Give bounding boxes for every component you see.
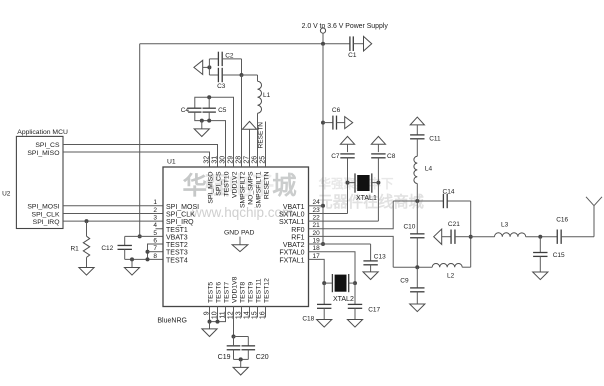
label L3 bbox=[501, 222, 509, 229]
svg-text:SPI_MOSI: SPI_MOSI bbox=[166, 204, 199, 211]
svg-text:L1: L1 bbox=[263, 92, 271, 99]
pin label VBAT2 (U1) bbox=[283, 242, 305, 249]
svg-text:1: 1 bbox=[153, 199, 157, 206]
node gnd tap rail bbox=[130, 257, 134, 261]
svg-text:VBAT3: VBAT3 bbox=[166, 234, 188, 241]
crystal XTAL1 bbox=[348, 173, 379, 192]
svg-text:NO_SMPS: NO_SMPS bbox=[248, 171, 255, 205]
svg-text:TEST10: TEST10 bbox=[224, 171, 231, 196]
pin 5 number bbox=[153, 230, 157, 237]
pin 32 number bbox=[204, 156, 211, 164]
pin 13 number bbox=[236, 311, 243, 319]
pin label TEST1 (U1) bbox=[166, 227, 188, 234]
pin label SPI_MISO (MCU) bbox=[27, 150, 59, 157]
pin label SPI_IRQ (U1) bbox=[166, 219, 194, 226]
capacitor C2 bbox=[209, 52, 241, 66]
svg-text:VBAT2: VBAT2 bbox=[283, 242, 305, 249]
pin 17 number bbox=[313, 253, 321, 260]
svg-text:17: 17 bbox=[313, 253, 321, 260]
svg-text:SPI_MOSI: SPI_MOSI bbox=[27, 204, 59, 211]
pin 1 number bbox=[153, 199, 157, 206]
svg-text:24: 24 bbox=[313, 199, 321, 206]
node C2C3 left bbox=[207, 65, 211, 69]
pin label TEST5 (U1) bbox=[208, 282, 215, 303]
wire C4C5 bottom rail bbox=[195, 112, 226, 167]
label R1 bbox=[70, 246, 79, 253]
pin 23 number bbox=[313, 207, 321, 214]
power supply terminal bbox=[320, 28, 325, 44]
svg-text:23: 23 bbox=[313, 207, 321, 214]
pin 6 number bbox=[153, 237, 157, 244]
wire SPI_MISO bbox=[63, 152, 210, 167]
svg-text:XTAL2: XTAL2 bbox=[333, 296, 354, 303]
label C8 bbox=[387, 153, 396, 160]
svg-text:C17: C17 bbox=[368, 306, 380, 313]
node bracket to rail bbox=[146, 257, 150, 261]
wire pin28 stub bbox=[241, 75, 243, 167]
svg-text:C6: C6 bbox=[332, 107, 341, 114]
node gnd tap C4C5 bbox=[200, 119, 204, 123]
power arrow above C8 bbox=[371, 136, 385, 144]
wire balun right column bbox=[470, 201, 472, 267]
svg-text:SPI_CS: SPI_CS bbox=[216, 171, 223, 196]
resistor R1 bbox=[83, 221, 89, 267]
capacitor C9 bbox=[410, 267, 424, 304]
wire pin 14 stub bbox=[249, 307, 251, 318]
pin 11 number bbox=[220, 311, 227, 318]
pin label SPI_CLK (MCU) bbox=[32, 211, 60, 218]
capacitor C20 bbox=[242, 346, 256, 360]
wire balun top rail bbox=[393, 200, 471, 202]
pin 26 number bbox=[252, 156, 259, 164]
wire L3 to C16 bbox=[526, 236, 558, 238]
crystal XTAL2 bbox=[324, 274, 355, 292]
svg-text:21: 21 bbox=[313, 222, 321, 229]
pin 29 number bbox=[228, 156, 235, 164]
capacitor C11 bbox=[410, 125, 424, 156]
label C7 bbox=[331, 153, 340, 160]
svg-text:C1: C1 bbox=[348, 52, 357, 59]
svg-text:BlueNRG: BlueNRG bbox=[157, 318, 187, 325]
wire VDD1V8 column bbox=[233, 307, 235, 337]
pin 18 number bbox=[313, 245, 321, 252]
pin 30 number bbox=[220, 156, 227, 164]
pin label TEST9 (U1) bbox=[248, 282, 255, 303]
wire balun bottom rail bbox=[393, 266, 471, 268]
power arrow NO_SMPS bbox=[242, 121, 256, 167]
pin label VBAT1 (U1) bbox=[283, 204, 305, 211]
node VBAT1 tap bbox=[321, 204, 325, 208]
pin 22 number bbox=[313, 215, 321, 222]
pin 25 number bbox=[260, 156, 267, 164]
capacitor C14 bbox=[443, 194, 447, 208]
label C4 bbox=[181, 107, 190, 114]
pin label SXTAL1 (U1) bbox=[279, 219, 305, 226]
pin 4 number bbox=[153, 222, 157, 229]
power arrow C2C3 bbox=[194, 60, 203, 74]
svg-text:TEST9: TEST9 bbox=[248, 282, 255, 303]
svg-text:C4: C4 bbox=[181, 107, 190, 114]
svg-text:SPI_IRQ: SPI_IRQ bbox=[166, 219, 194, 226]
ground below C9 bbox=[410, 304, 425, 312]
svg-text:C8: C8 bbox=[387, 153, 396, 160]
label XTAL1 bbox=[356, 195, 377, 202]
node pin9 gnd bbox=[208, 320, 212, 324]
svg-text:TEST6: TEST6 bbox=[216, 282, 223, 303]
svg-text:FXTAL0: FXTAL0 bbox=[279, 250, 304, 257]
label L2 bbox=[447, 272, 455, 279]
ground below C18 bbox=[317, 320, 332, 328]
label C12 bbox=[101, 245, 113, 252]
svg-text:L4: L4 bbox=[425, 166, 433, 173]
svg-text:Application MCU: Application MCU bbox=[17, 129, 68, 136]
net label RESETN bbox=[258, 122, 265, 149]
node C6 tap bbox=[321, 121, 325, 125]
svg-text:SMPSFILT1: SMPSFILT1 bbox=[256, 171, 263, 208]
wire VBAT2 to C13 bbox=[309, 243, 371, 245]
ground below pin9 bbox=[202, 322, 217, 337]
pin label SPI_CS (U1) bbox=[216, 171, 223, 196]
pin label FXTAL0 (U1) bbox=[279, 250, 304, 257]
pin label FXTAL1 (U1) bbox=[279, 257, 304, 264]
pin 24 number bbox=[313, 199, 321, 206]
pin label TEST12 (U1) bbox=[264, 278, 271, 303]
node antenna branch bbox=[469, 235, 473, 239]
label C19 bbox=[218, 354, 231, 361]
wire TEST2 bracket bbox=[148, 244, 164, 259]
pin 3 number bbox=[153, 215, 157, 222]
svg-text:城: 城 bbox=[272, 172, 297, 200]
pin label TEST4 (U1) bbox=[166, 257, 188, 264]
svg-text:VBAT1: VBAT1 bbox=[283, 204, 305, 211]
ground below C4C5 bbox=[194, 121, 209, 137]
pin 7 number bbox=[153, 245, 157, 252]
label U2 bbox=[2, 190, 11, 197]
node XTAL2 right bbox=[353, 281, 357, 285]
svg-text:C15: C15 bbox=[553, 252, 565, 259]
svg-text:U1: U1 bbox=[167, 159, 176, 166]
svg-text:L3: L3 bbox=[501, 222, 509, 229]
wire C2C3 left rail bbox=[208, 59, 210, 75]
pin 27 number bbox=[244, 156, 251, 164]
svg-text:TEST2: TEST2 bbox=[166, 242, 188, 249]
wire SPI_CS bbox=[63, 145, 218, 168]
pin 14 number bbox=[244, 311, 251, 319]
label C1 bbox=[348, 52, 357, 59]
capacitor C15 bbox=[533, 237, 547, 272]
svg-text:C12: C12 bbox=[101, 245, 113, 252]
pin label TEST7 (U1) bbox=[224, 282, 231, 303]
pin label SPI_IRQ (MCU) bbox=[33, 219, 60, 226]
node SMPSFILT2 bbox=[240, 73, 244, 77]
label C15 bbox=[553, 252, 565, 259]
wire SXTAL1 bbox=[309, 220, 379, 222]
wire node to L1 bbox=[242, 74, 258, 76]
inductor L4 bbox=[414, 156, 417, 201]
node power junction bbox=[321, 42, 325, 46]
svg-text:8: 8 bbox=[153, 253, 157, 260]
pin label TEST10 (U1) bbox=[224, 171, 231, 196]
pin 21 number bbox=[313, 222, 321, 229]
wire top rail bbox=[140, 43, 350, 45]
label C3 bbox=[217, 83, 226, 90]
svg-text:22: 22 bbox=[313, 215, 321, 222]
svg-text:C5: C5 bbox=[218, 107, 227, 114]
pin 28 number bbox=[236, 156, 243, 164]
pin 20 number bbox=[313, 230, 321, 237]
capacitor C4 bbox=[188, 108, 201, 112]
pin label SMPSFILT2 (U1) bbox=[240, 171, 247, 208]
pin 31 number bbox=[212, 156, 219, 164]
pin label VDD1V8 (U1) bbox=[232, 276, 239, 303]
ground below C12 rail bbox=[124, 259, 139, 275]
svg-text:C20: C20 bbox=[256, 354, 269, 361]
label L4 bbox=[425, 166, 433, 173]
pin 19 number bbox=[313, 237, 321, 244]
wire TEST3 stub bbox=[148, 251, 164, 253]
power arrow above C11 bbox=[410, 117, 424, 125]
wire FXTAL0 bbox=[309, 252, 356, 283]
svg-text:TEST8: TEST8 bbox=[240, 282, 247, 303]
wire RF0 bbox=[309, 201, 394, 229]
svg-text:31: 31 bbox=[212, 156, 219, 164]
wire C2 right drop bbox=[241, 59, 243, 75]
svg-text:C16: C16 bbox=[556, 216, 568, 223]
svg-text:C3: C3 bbox=[217, 83, 226, 90]
label C5 bbox=[218, 107, 227, 114]
wire supply column left bbox=[139, 44, 141, 237]
svg-text:6: 6 bbox=[153, 237, 157, 244]
wire C19 top plate stub bbox=[233, 337, 235, 346]
pin label TEST8 (U1) bbox=[240, 282, 247, 303]
svg-text:18: 18 bbox=[313, 245, 321, 252]
svg-text:C10: C10 bbox=[403, 224, 415, 231]
node R1 tap bbox=[85, 219, 89, 223]
label U1 bbox=[167, 159, 176, 166]
power arrow above C7 bbox=[340, 136, 354, 144]
pin label SPI_CS (MCU) bbox=[35, 142, 60, 149]
svg-text:SPI_CLK: SPI_CLK bbox=[166, 211, 195, 218]
svg-text:19: 19 bbox=[313, 237, 321, 244]
node pin10 gnd bbox=[216, 320, 220, 324]
capacitor C5 bbox=[203, 97, 216, 120]
capacitor C19 bbox=[227, 346, 241, 360]
capacitor C1 bbox=[350, 36, 364, 51]
antenna bbox=[586, 197, 602, 237]
svg-text:5: 5 bbox=[153, 230, 157, 237]
pin label SXTAL0 (U1) bbox=[279, 211, 305, 218]
svg-text:SXTAL0: SXTAL0 bbox=[279, 211, 305, 218]
wire SXTAL0 bbox=[309, 212, 348, 214]
power arrow after C6 bbox=[345, 117, 353, 129]
svg-text:RF1: RF1 bbox=[291, 234, 304, 241]
pin label VBAT3 (U1) bbox=[166, 234, 188, 241]
capacitor C13 bbox=[363, 244, 377, 272]
node C15 tap bbox=[538, 235, 542, 239]
node XTAL1 left bbox=[346, 181, 350, 185]
wire C19C20 top rail bbox=[234, 337, 249, 347]
svg-text:C18: C18 bbox=[302, 316, 314, 323]
IC U1 outline bbox=[163, 167, 309, 307]
svg-text:C7: C7 bbox=[331, 153, 340, 160]
wire SPI_MOSI bbox=[63, 205, 163, 207]
capacitor C8 bbox=[371, 144, 385, 221]
power supply label bbox=[302, 23, 389, 30]
node C19 top bbox=[232, 335, 236, 339]
pin 12 number bbox=[228, 311, 235, 319]
svg-text:20: 20 bbox=[313, 230, 321, 237]
wire TEST1 stub bbox=[156, 228, 164, 230]
pin label VDD1V2 (U1) bbox=[232, 171, 239, 198]
pin 10 number bbox=[212, 311, 219, 319]
wire SPI_IRQ bbox=[63, 220, 163, 222]
capacitor C10 bbox=[410, 201, 424, 267]
pin label RF0 (U1) bbox=[291, 227, 304, 234]
label C6 bbox=[332, 107, 341, 114]
power arrow after C1 bbox=[364, 36, 372, 51]
rf arrow C21 bbox=[434, 229, 442, 244]
wire SPI_CLK bbox=[63, 212, 163, 214]
svg-text:GND PAD: GND PAD bbox=[224, 230, 255, 237]
GND PAD symbol bbox=[224, 230, 255, 252]
node supply to VBAT3 bbox=[138, 234, 142, 238]
svg-text:C21: C21 bbox=[448, 221, 460, 228]
pin label SPI_MISO (U1) bbox=[208, 172, 215, 204]
wire C4C5 top rail bbox=[195, 97, 234, 167]
svg-text:SPI_CLK: SPI_CLK bbox=[32, 211, 60, 218]
svg-text:RESETN: RESETN bbox=[258, 122, 265, 149]
capacitor C3 bbox=[209, 68, 241, 82]
wire FXTAL1 bbox=[309, 259, 325, 283]
svg-text:TEST4: TEST4 bbox=[166, 257, 188, 264]
pin label SPI_MOSI (MCU) bbox=[27, 204, 59, 211]
svg-text:U2: U2 bbox=[2, 190, 11, 197]
label C2 bbox=[225, 52, 234, 59]
svg-text:华强聚集丰下: 华强聚集丰下 bbox=[319, 176, 395, 191]
svg-text:SMPSFILT2: SMPSFILT2 bbox=[240, 171, 247, 208]
wire supply column right bbox=[322, 44, 324, 244]
wire C19C20 bottom rail bbox=[234, 358, 249, 360]
capacitor C21 bbox=[442, 230, 471, 244]
node C19C20 gnd bbox=[239, 357, 243, 361]
inductor L3 bbox=[494, 233, 525, 237]
svg-text:C2: C2 bbox=[225, 52, 234, 59]
svg-text:华: 华 bbox=[183, 171, 208, 200]
pin 16 number bbox=[260, 311, 267, 319]
inductor L1 bbox=[258, 75, 262, 167]
capacitor C12 bbox=[118, 236, 132, 259]
capacitor C16 bbox=[557, 230, 561, 244]
label C10 bbox=[403, 224, 415, 231]
node C5 bottom bbox=[207, 119, 211, 123]
wire RF1 bbox=[309, 236, 394, 267]
svg-text:2: 2 bbox=[153, 207, 157, 214]
ground below C15 bbox=[533, 272, 548, 280]
pin 15 number bbox=[252, 311, 259, 319]
pin label TEST3 (U1) bbox=[166, 250, 188, 257]
svg-text:SPI_MISO: SPI_MISO bbox=[27, 150, 59, 157]
label C16 bbox=[556, 216, 568, 223]
ground below C17 bbox=[347, 320, 362, 328]
svg-text:4: 4 bbox=[153, 222, 157, 229]
svg-text:2.0 V to 3.6 V Power Supply: 2.0 V to 3.6 V Power Supply bbox=[302, 23, 389, 30]
node balun bottom bbox=[415, 265, 419, 269]
pin label TEST11 (U1) bbox=[256, 278, 263, 303]
wire pin 13 stub bbox=[241, 307, 243, 318]
svg-text:TEST3: TEST3 bbox=[166, 250, 188, 257]
pin label TEST6 (U1) bbox=[216, 282, 223, 303]
node C5 top bbox=[207, 95, 211, 99]
wire VBAT1 bbox=[309, 205, 324, 207]
svg-text:TEST5: TEST5 bbox=[208, 282, 215, 303]
svg-text:C14: C14 bbox=[443, 188, 455, 195]
capacitor C7 bbox=[340, 144, 354, 213]
svg-text:VDD1V2: VDD1V2 bbox=[232, 171, 239, 198]
svg-text:C9: C9 bbox=[400, 278, 409, 285]
inductor L2 bbox=[432, 263, 462, 267]
ground below R1 bbox=[79, 268, 94, 276]
svg-text:TEST11: TEST11 bbox=[256, 278, 263, 303]
pin label RESETN (U1) bbox=[264, 171, 271, 199]
svg-text:SXTAL1: SXTAL1 bbox=[279, 219, 305, 226]
svg-text:SPI_MISO: SPI_MISO bbox=[208, 172, 215, 204]
label L1 bbox=[263, 92, 271, 99]
pin label SPI_CLK (U1) bbox=[166, 211, 195, 218]
label Application MCU bbox=[17, 129, 68, 136]
wire pin 16 stub bbox=[265, 307, 267, 318]
wire C16 to antenna bbox=[561, 236, 594, 238]
svg-text:32: 32 bbox=[204, 156, 211, 164]
wire RESETN stub bbox=[265, 122, 267, 168]
node XTAL2 left bbox=[322, 281, 326, 285]
label C20 bbox=[256, 354, 269, 361]
svg-text:R1: R1 bbox=[70, 246, 79, 253]
wire TEST4 rail bbox=[125, 258, 163, 260]
pin label RF1 (U1) bbox=[291, 234, 304, 241]
svg-text:TEST1: TEST1 bbox=[166, 227, 188, 234]
label C13 bbox=[374, 253, 386, 260]
MCU U2 box bbox=[16, 136, 63, 228]
svg-text:RF0: RF0 bbox=[291, 227, 304, 234]
svg-text:L2: L2 bbox=[447, 272, 455, 279]
ground below C13 bbox=[363, 272, 378, 280]
label XTAL2 bbox=[333, 296, 354, 303]
pin label NO_SMPS (U1) bbox=[248, 171, 255, 205]
svg-text:TEST12: TEST12 bbox=[264, 278, 271, 303]
capacitor C6 bbox=[323, 116, 345, 130]
node balun top bbox=[415, 199, 419, 203]
wire pins 9-11 gnd bbox=[210, 307, 226, 322]
node XTAL1 right bbox=[376, 181, 380, 185]
label C18 bbox=[302, 316, 314, 323]
wire to L3 bbox=[471, 236, 495, 238]
pin 8 number bbox=[153, 253, 157, 260]
pin label SMPSFILT1 (U1) bbox=[256, 171, 263, 208]
pin 2 number bbox=[153, 207, 157, 214]
svg-text:C11: C11 bbox=[429, 136, 441, 143]
svg-text:RESETN: RESETN bbox=[264, 171, 271, 199]
capacitor C18 bbox=[317, 283, 331, 319]
node VBAT2 tap bbox=[321, 242, 325, 246]
svg-text:7: 7 bbox=[153, 245, 157, 252]
svg-text:C13: C13 bbox=[374, 253, 386, 260]
svg-text:FXTAL1: FXTAL1 bbox=[279, 257, 304, 264]
label C17 bbox=[368, 306, 380, 313]
pin 9 number bbox=[204, 311, 211, 315]
svg-text:XTAL1: XTAL1 bbox=[356, 195, 377, 202]
pin label SPI_MOSI (U1) bbox=[166, 204, 199, 211]
svg-text:SPI_CS: SPI_CS bbox=[35, 142, 60, 149]
